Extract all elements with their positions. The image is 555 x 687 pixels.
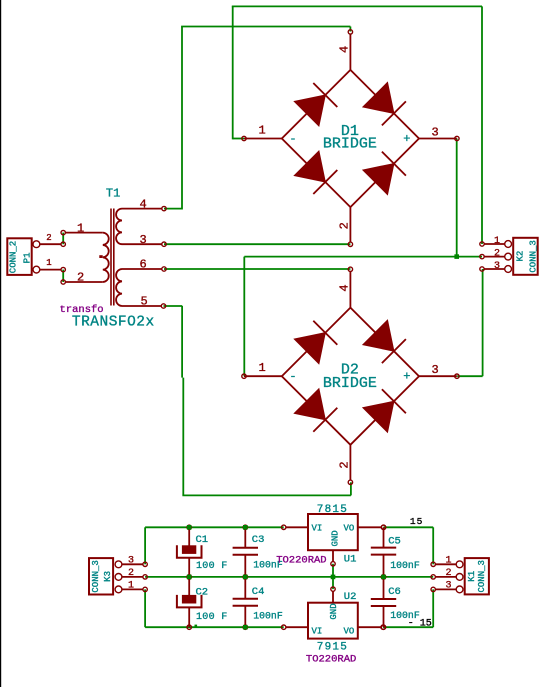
svg-text:2: 2 <box>494 248 500 259</box>
D2 minus sign <box>289 370 296 384</box>
svg-text:+: + <box>403 370 410 384</box>
P1 pin 2 <box>33 233 65 248</box>
svg-text:2: 2 <box>338 461 352 468</box>
K2 pin 1 <box>480 236 512 248</box>
junction C5 C6 middle <box>381 575 386 580</box>
T1 pin 5 <box>122 295 166 309</box>
svg-text:6: 6 <box>140 258 147 272</box>
D2 diode upper-right <box>363 320 406 363</box>
wire vertical x182 down upper <box>181 306 183 378</box>
K3 pin 3 <box>115 555 147 567</box>
K3 pin 2 <box>115 568 147 580</box>
svg-text:3: 3 <box>494 261 500 272</box>
U1 reference <box>344 554 357 566</box>
svg-text:U2: U2 <box>344 591 357 603</box>
svg-text:100 F: 100 F <box>196 561 228 572</box>
wire stub down to D1 pin4 <box>349 27 351 32</box>
junction C1 top <box>187 525 192 530</box>
svg-text:1: 1 <box>259 124 266 138</box>
wire P1 pin1 to transformer pin2 <box>62 270 64 282</box>
sheet border left edge <box>0 0 2 687</box>
svg-text:-: - <box>289 370 296 384</box>
T1 pin 2 <box>61 271 103 285</box>
capacitor C2 polarized <box>177 575 202 630</box>
K3 pin 1 <box>115 581 147 593</box>
wire U1 VO to corner <box>384 526 434 528</box>
svg-text:1: 1 <box>494 236 500 247</box>
wire top horizontal y26 to D1 pin4 <box>181 26 350 28</box>
svg-text:VI: VI <box>312 523 323 533</box>
svg-text:CONN_2: CONN_2 <box>9 241 19 273</box>
wire vertical x232 up <box>232 6 234 139</box>
wire transformer pin3 to D1 pin2 <box>164 243 350 245</box>
wire top horizontal y6 to K2 column <box>232 5 482 7</box>
T1 pin 3 <box>122 233 166 247</box>
U1 value 7815 <box>317 504 348 516</box>
svg-text:CONN_3: CONN_3 <box>91 560 101 592</box>
label -15 output <box>408 619 432 630</box>
D2 pin 1 <box>242 361 282 378</box>
svg-text:3: 3 <box>140 233 147 247</box>
connector K3 CONN_3 body <box>89 558 113 594</box>
U2 pin GND <box>331 587 335 603</box>
D1 diode upper-left <box>294 83 337 126</box>
T1 value TRANSFO2x <box>72 314 155 330</box>
wire vertical x182 up <box>181 27 183 210</box>
T1 pin 4 <box>122 197 166 211</box>
C4 reference <box>252 586 265 598</box>
svg-text:VO: VO <box>344 626 355 636</box>
D1 value BRIDGE <box>323 136 377 153</box>
C4 value 100nF <box>253 611 283 622</box>
wire up to D2 pin2 <box>350 482 352 495</box>
wire vertical x482 down to K2 pin1 <box>481 6 483 244</box>
U2 footprint TO220RAD <box>306 654 356 666</box>
svg-text:VI: VI <box>312 626 323 636</box>
svg-text:C1: C1 <box>196 534 209 546</box>
junction GND regulators <box>331 575 336 580</box>
C1 value 100uF <box>196 561 228 572</box>
K1 pin 3 <box>431 581 463 593</box>
K2 pin 2 <box>480 248 512 260</box>
svg-text:100nF: 100nF <box>253 611 283 622</box>
T1 pin 6 <box>122 258 166 272</box>
capacitor C6 <box>371 575 396 630</box>
svg-text:1: 1 <box>77 221 84 235</box>
D1 pin 4 <box>338 30 353 70</box>
svg-text:- 15: - 15 <box>408 619 432 630</box>
connector K1 CONN_3 body <box>465 558 489 594</box>
D1 reference <box>341 123 359 140</box>
wire top rail VI U1 <box>145 526 284 528</box>
svg-text:2: 2 <box>338 222 352 229</box>
wire bottom rail VI U2 <box>145 626 284 628</box>
connector K2 CONN_3 body <box>513 238 538 275</box>
wire D1 pin1 to corner <box>233 138 244 140</box>
D2 value BRIDGE <box>323 375 377 392</box>
svg-text:7815: 7815 <box>317 504 348 516</box>
D2 plus sign <box>403 370 410 384</box>
D1 diode lower-left <box>294 151 337 194</box>
T1 secondary winding lower <box>116 269 122 306</box>
svg-text:T1: T1 <box>106 187 120 201</box>
svg-text:4: 4 <box>140 197 147 211</box>
wire transformer pin6 to D2 pin4 <box>164 268 350 270</box>
U1 footprint TO220RAD <box>276 554 326 566</box>
junction C3 C4 middle <box>243 575 248 580</box>
C3 value 100nF <box>253 560 283 571</box>
D2 pin 2 <box>338 445 353 485</box>
T1 core <box>111 209 114 306</box>
junction C1 bottom <box>187 575 192 580</box>
svg-text:P1: P1 <box>23 252 33 263</box>
wire K2 pin2 horizontal <box>244 256 482 258</box>
D2 pin 4 <box>338 267 353 308</box>
svg-text:3: 3 <box>446 581 452 592</box>
svg-text:U1: U1 <box>344 554 357 566</box>
capacitor C5 <box>371 525 396 579</box>
T1 pin 1 <box>61 221 103 235</box>
wire vertical x482 up to K2 pin3 <box>482 269 484 376</box>
D2 diode lower-right <box>363 389 406 432</box>
junction C4 bottom <box>243 625 248 630</box>
junction node D1+ to K2 pin2 <box>454 254 459 259</box>
wire P1 pin2 to transformer pin1 <box>62 233 64 245</box>
C2 value 100uF <box>196 612 228 623</box>
bridge D1 diamond outline <box>282 70 419 207</box>
connector P1 CONN_2 body <box>7 238 32 275</box>
regulator U2 7915 body <box>308 603 358 639</box>
label +15 output <box>410 516 423 527</box>
svg-text:TO220RAD: TO220RAD <box>306 654 356 666</box>
svg-text:GND: GND <box>329 603 339 619</box>
C6 value 100nF <box>390 610 420 621</box>
svg-text:2: 2 <box>446 568 452 579</box>
wire transformer pin5 to corner <box>164 305 183 307</box>
T1 secondary winding upper <box>116 209 122 245</box>
svg-text:K2: K2 <box>516 251 526 262</box>
D2 diode lower-left <box>294 389 337 432</box>
svg-text:4: 4 <box>338 46 352 53</box>
P1 pin 1 <box>33 258 65 273</box>
capacitor C3 <box>233 525 258 579</box>
svg-text:VO: VO <box>344 523 355 533</box>
junction C3 top <box>243 525 248 530</box>
wire vertical x183 down lower <box>182 378 184 496</box>
D1 minus sign <box>289 132 296 146</box>
svg-text:K1: K1 <box>467 571 477 582</box>
C2 reference <box>196 586 209 598</box>
svg-text:C5: C5 <box>388 536 401 548</box>
svg-text:5: 5 <box>141 295 148 309</box>
svg-text:3: 3 <box>432 363 439 377</box>
U1 pin VI <box>282 525 309 529</box>
svg-text:3: 3 <box>128 555 134 566</box>
svg-text:1: 1 <box>128 581 134 592</box>
svg-text:2: 2 <box>128 568 134 579</box>
svg-text:CONN_3: CONN_3 <box>477 560 487 592</box>
svg-text:4: 4 <box>338 284 352 291</box>
wire bottom horizontal y495 <box>182 494 351 496</box>
U1 pin GND <box>331 550 335 566</box>
C5 reference <box>388 536 401 548</box>
U1 pin VO <box>358 525 386 529</box>
D1 plus sign <box>403 132 410 146</box>
svg-text:2: 2 <box>46 233 51 243</box>
wire down to D2 pin1 <box>243 257 245 377</box>
bridge D2 diamond outline <box>282 308 419 445</box>
wire transformer pin4 to corner <box>164 208 182 210</box>
svg-text:1: 1 <box>46 258 51 268</box>
svg-text:C4: C4 <box>252 586 265 598</box>
U2 value 7915 <box>317 642 348 654</box>
wire U2 VO to corner <box>383 626 433 628</box>
D2 pin 3 <box>419 363 459 378</box>
svg-text:7915: 7915 <box>317 642 348 654</box>
U2 reference <box>344 591 357 603</box>
D1 diode upper-right <box>363 82 406 125</box>
regulator U1 7815 body <box>308 514 358 550</box>
D1 pin 2 <box>338 207 353 246</box>
wire D2 pin3 to corner <box>457 375 482 377</box>
svg-text:C3: C3 <box>252 534 265 546</box>
svg-text:TRANSFO2x: TRANSFO2x <box>72 314 155 330</box>
T1 footprint label transfo <box>60 304 104 316</box>
C3 reference <box>252 534 265 546</box>
svg-text:BRIDGE: BRIDGE <box>323 136 377 153</box>
svg-text:K3: K3 <box>103 571 113 582</box>
svg-text:3: 3 <box>432 126 439 140</box>
svg-text:CONN_3: CONN_3 <box>529 240 539 272</box>
svg-text:C6: C6 <box>388 586 401 598</box>
C1 reference <box>196 534 209 546</box>
svg-text:1: 1 <box>259 361 266 375</box>
svg-text:-: - <box>289 132 296 146</box>
C5 value 100nF <box>390 560 420 571</box>
svg-text:1: 1 <box>446 555 452 566</box>
T1 primary winding <box>99 233 108 282</box>
svg-text:C2: C2 <box>196 586 209 598</box>
U2 pin VI <box>282 625 309 629</box>
svg-text:100nF: 100nF <box>390 560 420 571</box>
D1 pin 1 <box>242 124 282 141</box>
wire D1 pin3 down to node <box>456 139 458 257</box>
svg-text:15: 15 <box>410 516 423 527</box>
U2 pin VO <box>358 625 386 629</box>
svg-text:100 F: 100 F <box>196 612 228 623</box>
K1 pin 1 <box>431 555 463 567</box>
K1 pin 2 <box>431 568 463 580</box>
D2 diode upper-left <box>294 321 337 364</box>
D1 pin 3 <box>419 126 459 141</box>
wire up to K1 pin3 <box>432 589 434 627</box>
svg-text:2: 2 <box>77 271 84 285</box>
transformer T1 label <box>106 187 120 201</box>
wire K3 pin1 down to bottom rail <box>144 589 146 627</box>
wire middle GND rail <box>145 576 433 578</box>
junction small C2 bottom <box>195 625 198 628</box>
C6 reference <box>388 586 401 598</box>
capacitor C4 <box>233 575 258 630</box>
K2 pin 3 <box>480 261 512 273</box>
svg-text:TO220RAD: TO220RAD <box>276 554 326 566</box>
svg-text:GND: GND <box>330 530 340 546</box>
svg-text:BRIDGE: BRIDGE <box>323 375 377 392</box>
capacitor C1 polarized <box>177 525 202 579</box>
wire K3 pin3 up to top rail <box>144 527 146 564</box>
wire down to K1 pin1 <box>432 527 434 564</box>
D1 diode lower-right <box>363 152 406 195</box>
wire U1 GND to rail to U2 GND <box>332 564 334 589</box>
D2 reference <box>341 362 359 379</box>
svg-text:+: + <box>403 132 410 146</box>
